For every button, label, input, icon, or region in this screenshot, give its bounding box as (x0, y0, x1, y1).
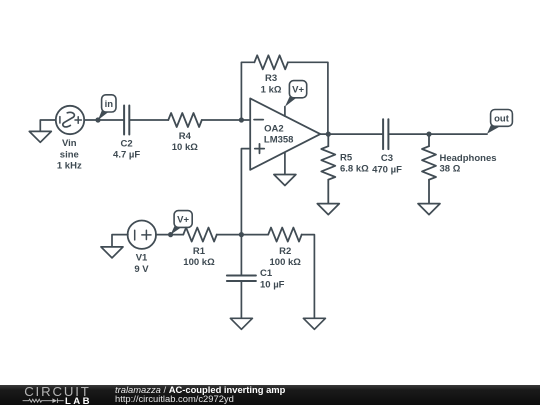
capacitor C1 (227, 276, 256, 282)
voltage source V1 battery (128, 221, 156, 249)
node feedback junction (239, 117, 244, 122)
svg-text:V+: V+ (292, 85, 304, 96)
svg-text:OA2: OA2 (264, 124, 284, 135)
svg-text:9 V: 9 V (134, 264, 149, 275)
svg-text:10 kΩ: 10 kΩ (172, 142, 198, 153)
resistor R1 (183, 228, 217, 242)
flag V+ op-amp (285, 81, 307, 107)
node headphones junction (426, 132, 431, 137)
node in junction (95, 117, 100, 122)
voltage source Vin sine (56, 106, 84, 134)
svg-text:100 kΩ: 100 kΩ (270, 257, 302, 268)
svg-text:LAB: LAB (65, 396, 92, 405)
svg-text:10 µF: 10 µF (260, 280, 285, 291)
wire (240, 235, 242, 275)
svg-text:4.7 µF: 4.7 µF (113, 150, 140, 161)
ground V1 (101, 247, 123, 258)
svg-text:R3: R3 (265, 73, 277, 84)
wire (288, 62, 328, 134)
svg-text:C1: C1 (260, 268, 273, 279)
svg-text:C2: C2 (121, 138, 133, 149)
svg-text:470 µF: 470 µF (372, 164, 402, 175)
resistor R3 (254, 55, 288, 69)
node output junction (326, 132, 331, 137)
svg-text:1 kHz: 1 kHz (57, 161, 82, 172)
resistor R2 (268, 228, 302, 242)
svg-text:C3: C3 (381, 153, 393, 164)
svg-text:V+: V+ (177, 215, 189, 226)
wire (40, 120, 56, 131)
svg-text:38 Ω: 38 Ω (440, 164, 461, 175)
svg-text:Headphones: Headphones (440, 153, 497, 164)
svg-text:R2: R2 (279, 246, 291, 257)
svg-text:Vin: Vin (62, 138, 77, 149)
wire (388, 133, 487, 135)
ground op-amp (274, 175, 296, 186)
wire (217, 234, 269, 236)
ground (29, 131, 51, 142)
wire (112, 235, 128, 247)
resistor R4 (168, 113, 202, 127)
svg-text:LM358: LM358 (264, 134, 294, 145)
wire (202, 119, 251, 121)
wire (320, 133, 383, 135)
flag in (98, 95, 116, 120)
CircuitLab logo (0, 385, 110, 405)
wire (241, 149, 250, 235)
footer bar (0, 385, 540, 405)
svg-text:R5: R5 (340, 152, 353, 163)
svg-text:R4: R4 (179, 131, 192, 142)
wire (241, 62, 254, 120)
svg-text:sine: sine (60, 149, 79, 160)
resistor Headphones (422, 134, 436, 203)
svg-text:R1: R1 (193, 246, 206, 257)
svg-text:in: in (105, 99, 114, 110)
capacitor C2 (124, 106, 129, 135)
op-amp OA2 (250, 98, 320, 174)
wire (240, 281, 242, 318)
ground Headphones (418, 204, 440, 215)
svg-text:out: out (494, 113, 510, 124)
svg-text:6.8 kΩ: 6.8 kΩ (340, 164, 369, 175)
wire (302, 235, 315, 319)
svg-text:100 kΩ: 100 kΩ (183, 257, 215, 268)
node V+ junction (168, 232, 173, 237)
footer text (115, 385, 535, 403)
wire (156, 234, 183, 236)
ground C1 (230, 318, 252, 329)
capacitor C3 (383, 119, 388, 149)
wire (84, 119, 124, 121)
svg-text:V1: V1 (136, 253, 148, 264)
node bias junction (239, 232, 244, 237)
resistor R5 (321, 134, 335, 203)
ground R2 (303, 318, 325, 329)
flag out (487, 110, 512, 134)
flag V+ V1 (171, 211, 193, 235)
svg-text:1 kΩ: 1 kΩ (261, 84, 282, 95)
ground R5 (317, 204, 339, 215)
wire (129, 119, 168, 121)
